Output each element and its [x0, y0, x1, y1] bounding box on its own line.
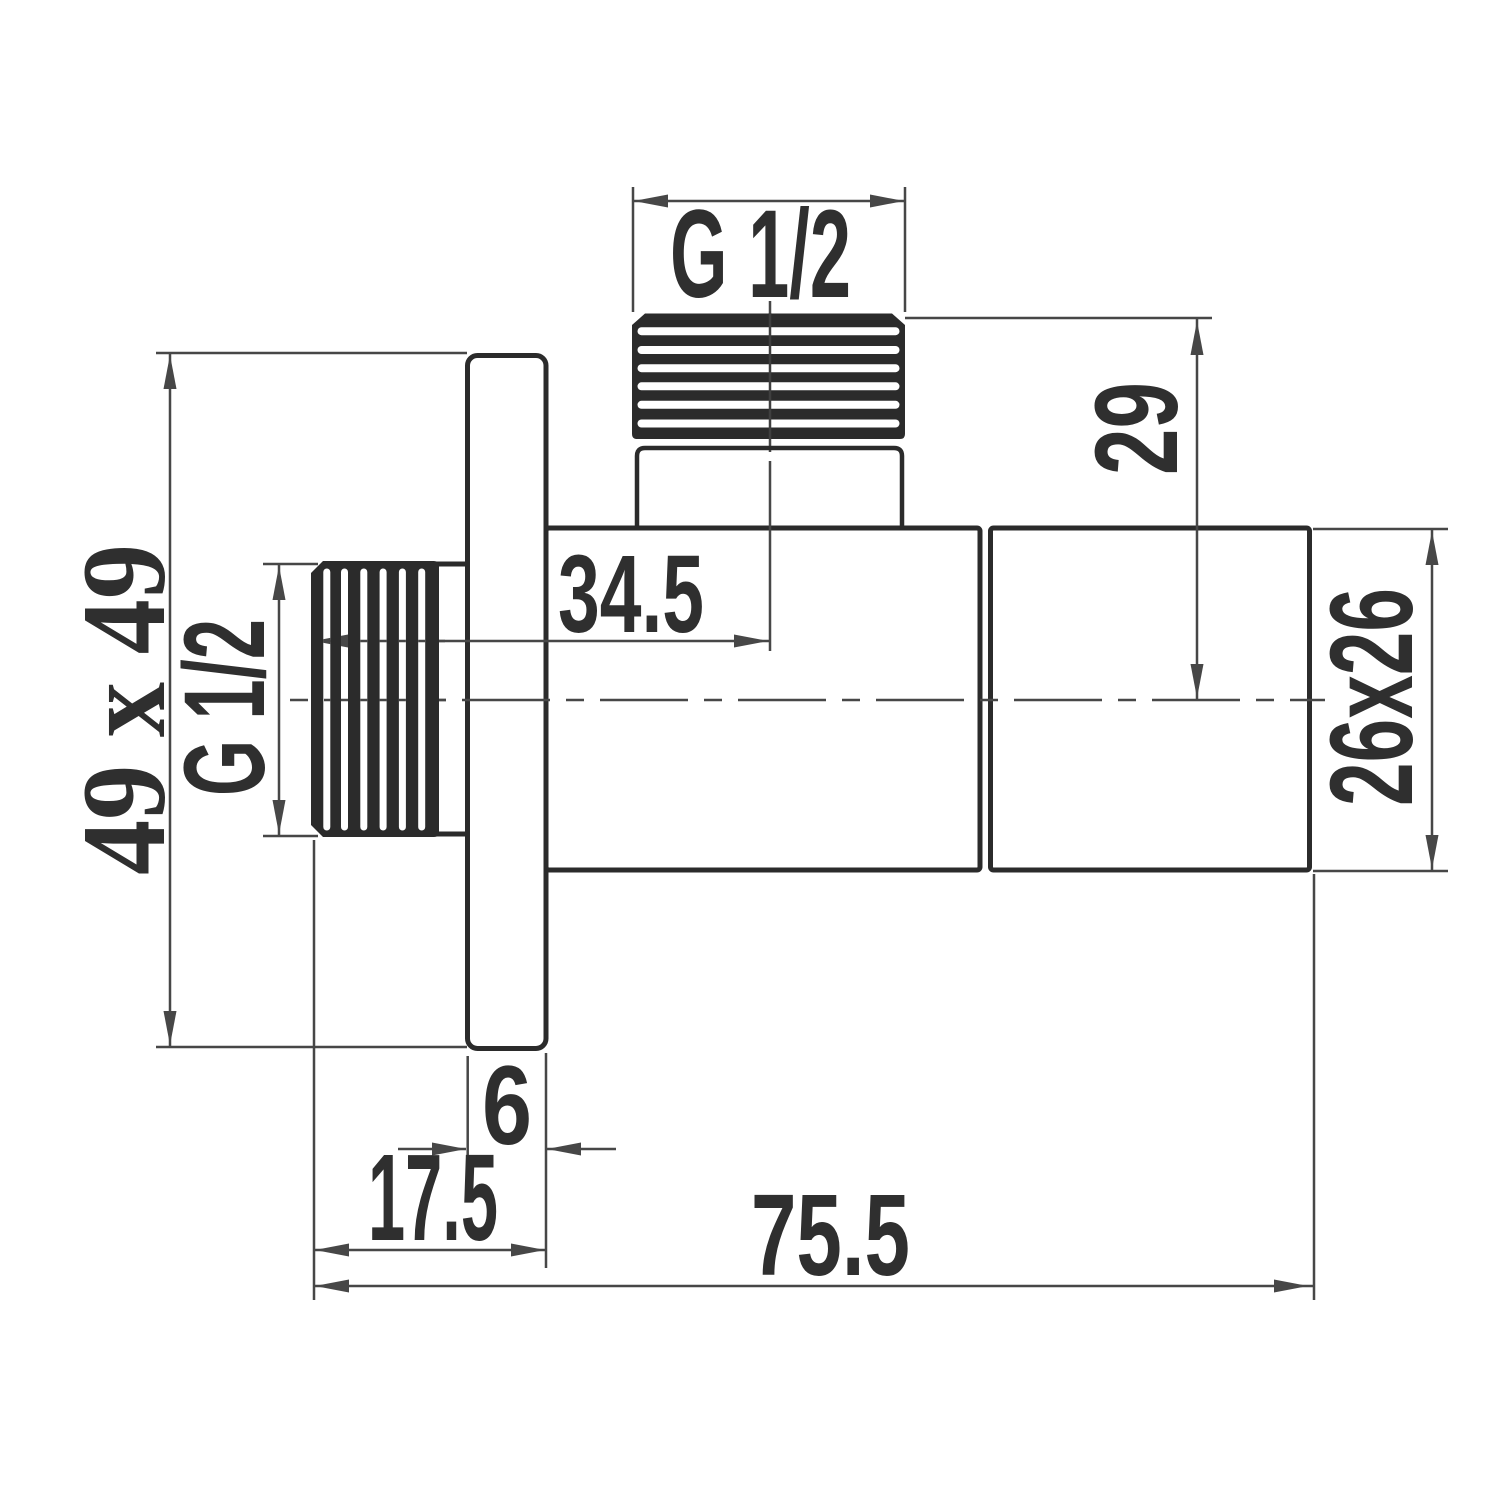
- dimension G 1/2 top: extension lines, dim line, arrows, label: [633, 187, 905, 312]
- left pipe shank outline: [430, 564, 466, 834]
- dimension 6: extension lines, dim line segments, arrows, label: [398, 1053, 616, 1268]
- dimension 75.5: extension line, dim line, arrows, label: [314, 874, 1314, 1300]
- dimension G 1/2 left: extension lines, dim line, arrows, label: [263, 564, 318, 836]
- svg-text:49 x 49: 49 x 49: [57, 544, 190, 875]
- dimension 26x26: extension lines, dim line, arrows, label: [1313, 529, 1448, 871]
- top threaded pipe G 1/2: [632, 314, 905, 440]
- svg-text:26x26: 26x26: [1306, 588, 1438, 806]
- wire: top pipe axis over thread: [769, 313, 772, 439]
- top pipe stem outline: [637, 448, 902, 530]
- left threaded pipe G 1/2: [311, 561, 439, 837]
- dimension 34.5: dim line, arrows, label: [313, 640, 770, 643]
- svg-text:17.5: 17.5: [368, 1130, 498, 1267]
- svg-text:75.5: 75.5: [751, 1170, 910, 1300]
- dimension 29: extension line, dim line, arrows, label: [905, 318, 1212, 700]
- horizontal center axis line: [290, 699, 1325, 702]
- wire: centre axis dashes over left thread: [324, 699, 446, 702]
- vertical axis of top pipe: [769, 301, 772, 651]
- dimension 49 x 49: extension lines, dim line, arrows, label: [156, 353, 467, 1047]
- dimension 17.5: extension line, dim line, arrows, label: [314, 840, 546, 1300]
- svg-text:G 1/2: G 1/2: [670, 185, 851, 324]
- valve body: [546, 528, 980, 870]
- svg-text:29: 29: [1071, 382, 1203, 475]
- handle block 26x26: [991, 528, 1310, 870]
- svg-text:34.5: 34.5: [558, 533, 704, 656]
- wall flange plate: [468, 356, 547, 1049]
